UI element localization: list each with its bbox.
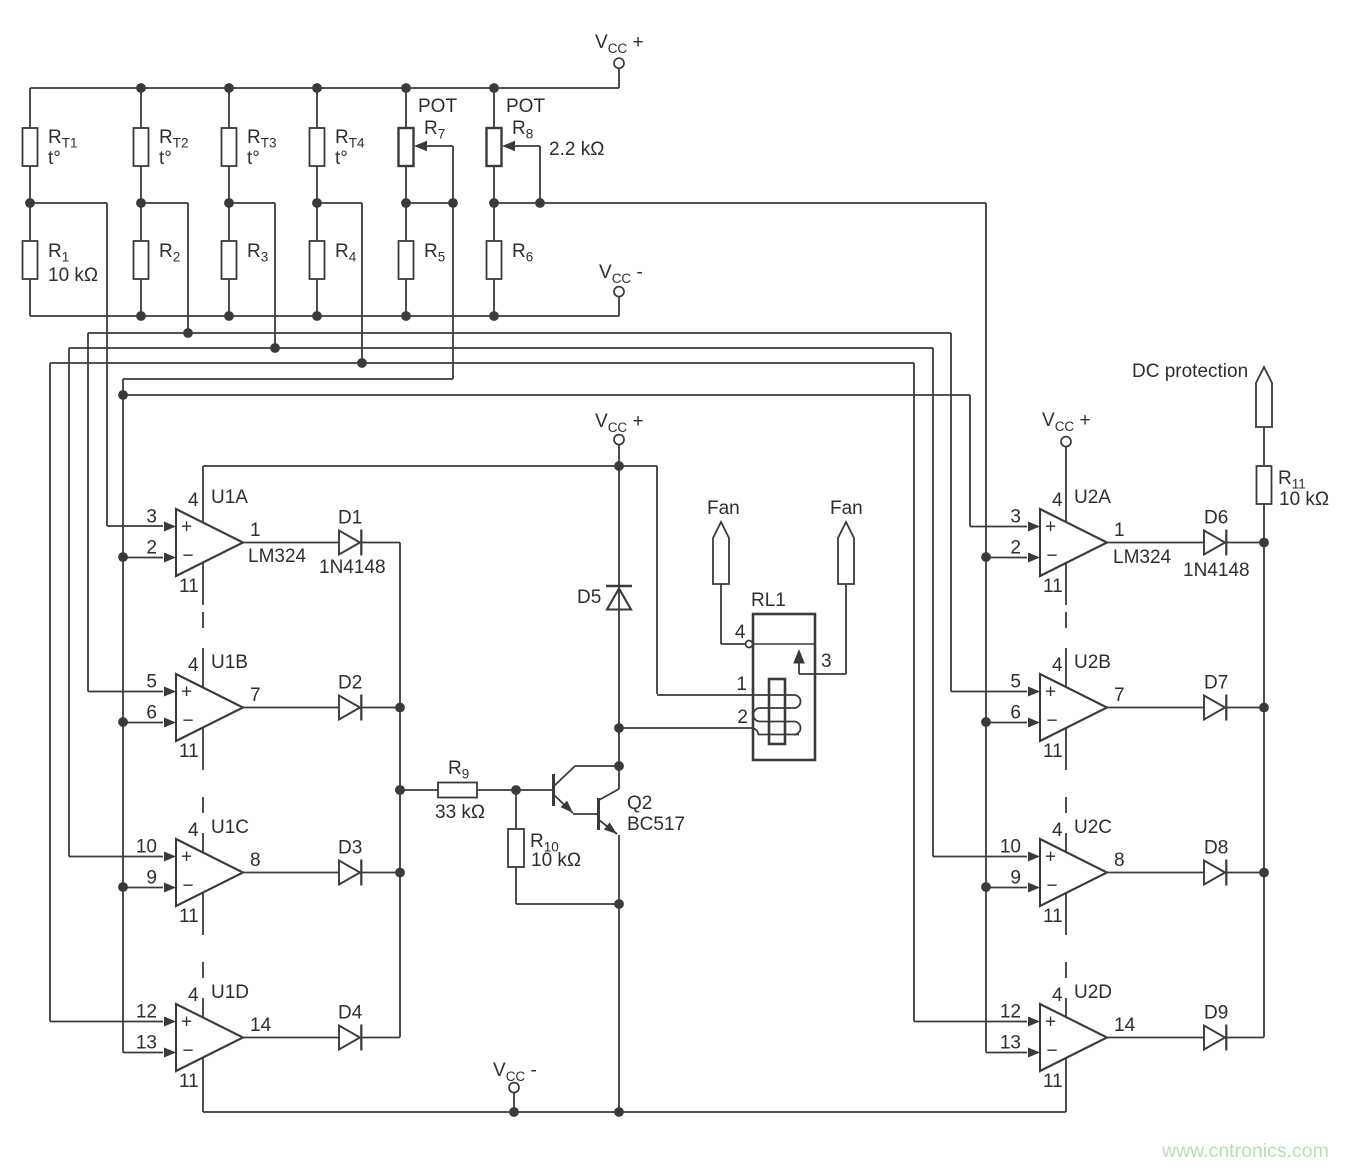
svg-text:D1: D1 (338, 508, 362, 529)
svg-text:D5: D5 (577, 587, 601, 608)
svg-text:12: 12 (136, 1002, 157, 1023)
svg-text:t°: t° (159, 148, 172, 169)
svg-text:D2: D2 (338, 673, 362, 694)
svg-text:11: 11 (179, 1071, 199, 1092)
svg-text:Fan: Fan (830, 498, 863, 519)
svg-text:−: − (1047, 546, 1058, 567)
svg-text:1N4148: 1N4148 (319, 557, 386, 578)
svg-text:11: 11 (179, 741, 199, 762)
svg-text:D3: D3 (338, 838, 362, 859)
svg-text:D7: D7 (1204, 673, 1228, 694)
svg-text:U2B: U2B (1074, 652, 1111, 673)
svg-text:2: 2 (1010, 538, 1021, 559)
svg-text:10 kΩ: 10 kΩ (1279, 489, 1329, 510)
svg-text:t°: t° (247, 148, 260, 169)
svg-text:−: − (183, 1041, 194, 1062)
svg-text:4: 4 (188, 985, 199, 1006)
svg-text:U1C: U1C (211, 817, 249, 838)
svg-text:U2A: U2A (1074, 487, 1111, 508)
svg-text:Q2: Q2 (627, 793, 652, 814)
svg-text:−: − (183, 546, 194, 567)
svg-text:POT: POT (506, 96, 545, 117)
svg-text:4: 4 (1052, 985, 1063, 1006)
svg-text:1: 1 (250, 520, 261, 541)
svg-text:RL1: RL1 (751, 590, 786, 611)
svg-text:U2D: U2D (1074, 982, 1112, 1003)
svg-text:1: 1 (1114, 520, 1125, 541)
svg-text:2: 2 (737, 707, 748, 728)
svg-text:4: 4 (1052, 820, 1063, 841)
svg-text:11: 11 (1043, 906, 1063, 927)
svg-text:D9: D9 (1204, 1003, 1228, 1024)
svg-text:−: − (183, 711, 194, 732)
svg-text:8: 8 (250, 850, 261, 871)
svg-text:+: + (1045, 1012, 1056, 1033)
svg-text:BC517: BC517 (627, 814, 685, 835)
svg-text:POT: POT (418, 96, 457, 117)
svg-text:U1A: U1A (211, 487, 248, 508)
svg-text:U1D: U1D (211, 982, 249, 1003)
svg-text:10 kΩ: 10 kΩ (531, 850, 581, 871)
svg-text:U2C: U2C (1074, 817, 1112, 838)
svg-text:t°: t° (335, 148, 348, 169)
svg-text:−: − (1047, 711, 1058, 732)
svg-text:11: 11 (1043, 741, 1063, 762)
svg-text:10 kΩ: 10 kΩ (48, 265, 98, 286)
svg-text:+: + (1045, 847, 1056, 868)
svg-text:11: 11 (179, 576, 199, 597)
svg-text:5: 5 (1010, 672, 1021, 693)
svg-text:11: 11 (1043, 576, 1063, 597)
svg-text:9: 9 (1010, 868, 1021, 889)
svg-text:4: 4 (1052, 655, 1063, 676)
svg-text:5: 5 (146, 672, 157, 693)
svg-text:7: 7 (1114, 685, 1125, 706)
svg-text:14: 14 (1114, 1015, 1136, 1036)
svg-text:4: 4 (188, 655, 199, 676)
svg-text:13: 13 (1000, 1033, 1021, 1054)
svg-text:D6: D6 (1204, 508, 1228, 529)
svg-text:7: 7 (250, 685, 261, 706)
svg-text:1N4148: 1N4148 (1183, 560, 1250, 581)
svg-text:13: 13 (136, 1033, 157, 1054)
svg-text:3: 3 (1010, 507, 1021, 528)
svg-text:LM324: LM324 (1113, 547, 1172, 568)
svg-text:2.2 kΩ: 2.2 kΩ (549, 139, 604, 160)
svg-text:8: 8 (1114, 850, 1125, 871)
svg-text:4: 4 (735, 622, 746, 643)
svg-text:U1B: U1B (211, 652, 248, 673)
svg-text:11: 11 (179, 906, 199, 927)
svg-text:4: 4 (1052, 490, 1063, 511)
svg-text:LM324: LM324 (248, 546, 307, 567)
svg-text:+: + (1045, 517, 1056, 538)
svg-text:11: 11 (1043, 1071, 1063, 1092)
svg-text:4: 4 (188, 820, 199, 841)
svg-text:−: − (1047, 1041, 1058, 1062)
svg-text:D4: D4 (338, 1003, 363, 1024)
svg-text:3: 3 (146, 507, 157, 528)
svg-text:9: 9 (146, 868, 157, 889)
svg-text:+: + (181, 682, 192, 703)
svg-text:1: 1 (736, 674, 747, 695)
svg-text:+: + (181, 517, 192, 538)
svg-text:D8: D8 (1204, 838, 1228, 859)
svg-text:10: 10 (136, 837, 157, 858)
svg-text:14: 14 (250, 1015, 272, 1036)
svg-text:+: + (181, 1012, 192, 1033)
svg-text:3: 3 (821, 651, 832, 672)
svg-text:10: 10 (1000, 837, 1021, 858)
svg-text:Fan: Fan (707, 498, 740, 519)
svg-text:2: 2 (146, 538, 157, 559)
svg-text:www.cntronics.com: www.cntronics.com (1161, 1140, 1329, 1162)
svg-text:6: 6 (1010, 703, 1021, 724)
svg-text:12: 12 (1000, 1002, 1021, 1023)
svg-text:+: + (1045, 682, 1056, 703)
svg-text:+: + (181, 847, 192, 868)
svg-text:33 kΩ: 33 kΩ (435, 802, 485, 823)
svg-text:DC protection: DC protection (1132, 361, 1248, 382)
svg-text:t°: t° (48, 148, 61, 169)
svg-text:−: − (183, 876, 194, 897)
svg-text:6: 6 (146, 703, 157, 724)
svg-text:−: − (1047, 876, 1058, 897)
svg-text:4: 4 (188, 490, 199, 511)
